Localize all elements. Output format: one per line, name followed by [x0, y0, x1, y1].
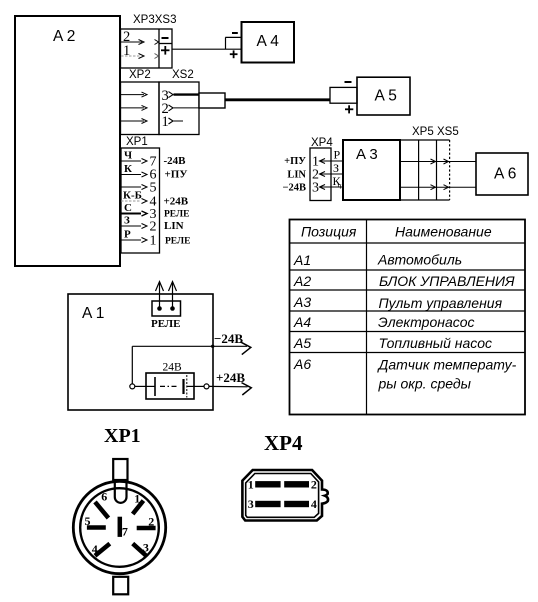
pin 2 wire XP3	[121, 29, 159, 45]
svg-text:РЕЛЕ: РЕЛЕ	[165, 237, 190, 247]
XP1 pin 2	[137, 514, 156, 528]
wire -24V	[132, 331, 251, 384]
XP1 pin 3 wire	[121, 202, 189, 222]
control panel A3	[343, 140, 400, 200]
svg-text:XP4: XP4	[311, 137, 333, 149]
svg-text:2: 2	[311, 478, 317, 492]
battery terminals	[130, 384, 209, 389]
svg-text:XP2: XP2	[129, 69, 151, 81]
connector XS2	[159, 69, 199, 135]
XP4 face outer outline	[242, 470, 328, 521]
pin 1 wire XP3	[121, 43, 159, 59]
svg-text:A 3: A 3	[356, 146, 378, 163]
svg-text:4: 4	[311, 497, 317, 511]
svg-text:7: 7	[122, 525, 128, 539]
svg-text:A1: A1	[293, 252, 311, 268]
svg-text:1: 1	[162, 114, 169, 130]
XP4 pin 1 wire	[284, 148, 343, 170]
svg-text:A4: A4	[293, 314, 311, 330]
svg-text:1: 1	[134, 491, 140, 505]
svg-text:ч: ч	[338, 182, 342, 191]
svg-text:БЛОК УПРАВЛЕНИЯ: БЛОК УПРАВЛЕНИЯ	[379, 273, 515, 289]
XP4 face inner outline	[246, 474, 319, 518]
wire A3 to A6 lower	[400, 185, 476, 190]
svg-text:Р: Р	[334, 148, 341, 162]
XP4 pin 3	[248, 497, 281, 511]
svg-text:К: К	[124, 163, 132, 175]
parts table	[290, 220, 526, 415]
XP1 pin 1 wire	[121, 229, 190, 249]
svg-text:1: 1	[248, 478, 254, 492]
svg-text:2: 2	[148, 514, 154, 528]
XP4 pin 2	[284, 478, 317, 492]
svg-text:A 2: A 2	[53, 28, 75, 45]
svg-text:4: 4	[92, 542, 98, 556]
svg-text:С: С	[124, 202, 132, 214]
svg-text:XP5: XP5	[412, 126, 434, 138]
svg-text:−24В: −24В	[283, 183, 307, 194]
control unit A1	[68, 294, 213, 410]
svg-text:A 1: A 1	[82, 305, 104, 322]
XP1 pin 7 (center)	[120, 517, 128, 539]
svg-text:3: 3	[248, 497, 254, 511]
svg-text:З: З	[333, 161, 339, 175]
svg-text:Ч: Ч	[124, 150, 132, 162]
XP4 pin 4	[284, 497, 317, 511]
svg-text:3: 3	[143, 541, 149, 555]
svg-text:A3: A3	[293, 294, 311, 310]
fuel pump A5	[357, 77, 410, 115]
svg-text:+24В: +24В	[216, 370, 245, 385]
XP1 pin 2 wire	[121, 215, 184, 235]
svg-text:5: 5	[85, 514, 91, 528]
cable sleeve	[199, 93, 225, 108]
svg-text:A2: A2	[293, 273, 311, 289]
XP1 pin 5 wire	[121, 181, 157, 196]
polarity marks XS3	[161, 38, 170, 55]
svg-text:1: 1	[150, 234, 157, 249]
svg-text:Электронасос: Электронасос	[378, 314, 475, 330]
XP1 pin 5	[85, 514, 106, 528]
wire A3 to A6 upper	[400, 159, 476, 164]
XP1 pin 4	[92, 542, 110, 556]
connector XP5 XS5 grid	[400, 126, 459, 200]
svg-text:+24В: +24В	[164, 196, 189, 208]
XP1 face outer ring	[73, 481, 165, 573]
XP1 key slot	[115, 481, 127, 503]
XP4 pin 1	[248, 478, 281, 492]
XP1 pin 6 wire	[121, 163, 187, 183]
svg-text:Наименование: Наименование	[395, 224, 492, 240]
svg-text:РЕЛЕ: РЕЛЕ	[164, 210, 189, 220]
relay contact box	[152, 301, 181, 316]
XP1 pin 7 wire	[121, 150, 186, 170]
svg-text:2: 2	[150, 220, 157, 235]
svg-text:К-Б: К-Б	[123, 190, 142, 202]
XP1 pin 1	[133, 491, 144, 514]
XP1 pin 6	[95, 490, 108, 518]
polarity marks A4	[230, 33, 238, 58]
svg-text:XS5: XS5	[437, 126, 459, 138]
svg-text:XP3XS3: XP3XS3	[133, 14, 176, 26]
svg-text:XP1: XP1	[104, 425, 141, 447]
XP1 pin 4 wire	[121, 190, 189, 210]
svg-text:A 6: A 6	[494, 166, 516, 183]
svg-text:A 5: A 5	[375, 88, 397, 105]
svg-text:XP1: XP1	[126, 136, 148, 148]
wire XS3 to A4	[172, 37, 242, 49]
relay wire arrows	[156, 282, 177, 309]
XP2 pin wires	[121, 92, 147, 123]
connector XP2	[121, 69, 160, 135]
battery 24V	[146, 362, 194, 400]
XS2 pin 1 stub	[162, 114, 184, 130]
svg-text:Датчик температу-: Датчик температу-	[377, 357, 517, 373]
svg-text:Пульт управления: Пульт управления	[379, 295, 503, 311]
svg-text:З: З	[124, 215, 130, 227]
svg-text:6: 6	[101, 490, 107, 504]
svg-text:1: 1	[123, 43, 130, 59]
svg-text:LIN: LIN	[164, 220, 184, 232]
svg-text:Топливный насос: Топливный насос	[379, 335, 493, 351]
electric pump A4	[242, 22, 295, 63]
XP1 top key tab	[113, 459, 127, 480]
svg-text:A 4: A 4	[257, 33, 280, 50]
wire +24V	[209, 370, 251, 395]
svg-text:24В: 24В	[163, 362, 183, 374]
svg-text:−24В: −24В	[214, 331, 243, 346]
connector at A5	[330, 82, 357, 113]
XP1 bottom key tab	[113, 577, 128, 595]
XP4 pin 3 wire	[283, 174, 344, 196]
XP4 pin 2 wire	[287, 161, 343, 183]
connector XP3XS3	[121, 14, 177, 68]
XS2 pin 2	[162, 101, 200, 117]
XP1 pin 3	[133, 541, 149, 556]
svg-text:РЕЛЕ: РЕЛЕ	[151, 318, 180, 330]
connector XP4 (schematic)	[310, 137, 333, 201]
svg-text:A6: A6	[293, 356, 311, 372]
svg-text:LIN: LIN	[287, 170, 306, 181]
svg-text:XP4: XP4	[264, 431, 303, 455]
svg-text:Позиция: Позиция	[301, 224, 357, 240]
svg-text:-24В: -24В	[164, 155, 187, 167]
svg-text:3: 3	[312, 181, 319, 196]
connector XP1 (schematic)	[121, 136, 160, 253]
svg-text:5: 5	[150, 181, 157, 196]
XS2 pin 3	[162, 88, 200, 104]
svg-text:+ПУ: +ПУ	[284, 156, 306, 167]
svg-text:+ПУ: +ПУ	[165, 169, 188, 181]
svg-text:ры окр. среды: ры окр. среды	[378, 376, 472, 392]
temperature sensor A6	[476, 153, 528, 195]
svg-text:Р: Р	[124, 229, 131, 241]
cable to A5	[225, 98, 330, 101]
XP1 face inner ring	[80, 488, 159, 567]
block A2	[15, 16, 120, 266]
svg-text:Автомобиль: Автомобиль	[377, 252, 462, 268]
svg-text:A5: A5	[293, 335, 311, 351]
svg-text:XS2: XS2	[172, 69, 194, 81]
